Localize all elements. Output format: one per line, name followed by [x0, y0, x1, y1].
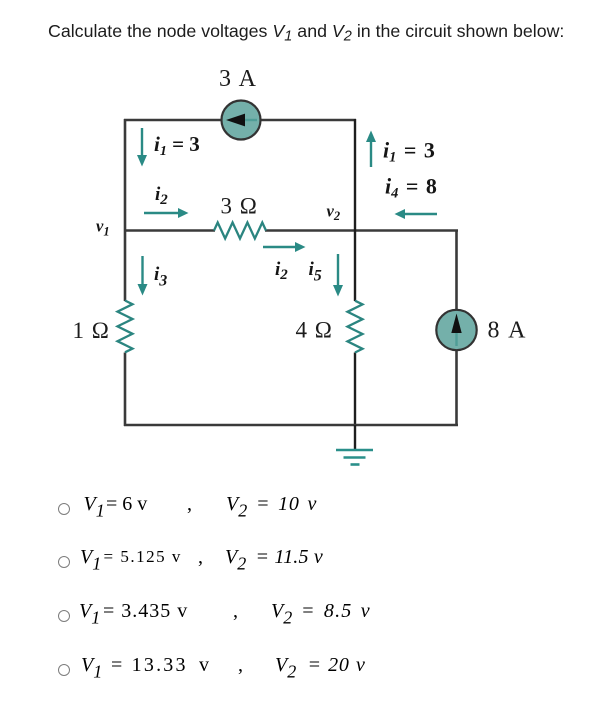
- label node v1: [96, 217, 110, 239]
- label i2 middle: [275, 259, 288, 283]
- label 1ohm value: [73, 318, 109, 343]
- label 3A value: [219, 66, 257, 92]
- label i1=3 left: [154, 132, 200, 159]
- svg-text:i1 = 3: i1 = 3: [154, 132, 200, 159]
- arrow i5 (down): [333, 254, 343, 297]
- wire middle vertical lower: [354, 353, 356, 427]
- label 8A value: [488, 318, 527, 344]
- svg-text:8 A: 8 A: [488, 318, 527, 344]
- svg-text:i4 = 8: i4 = 8: [385, 174, 437, 202]
- wire right rail: [455, 230, 458, 427]
- resistor 4ohm: [348, 301, 363, 353]
- label i5: [309, 259, 322, 285]
- arrow i2 middle (right): [263, 242, 306, 252]
- svg-text:4 Ω: 4 Ω: [296, 318, 332, 343]
- arrow i1 left (down): [137, 128, 147, 167]
- arrow i3 (down): [138, 256, 148, 296]
- svg-text:3 A: 3 A: [219, 66, 257, 92]
- wire top rail: [124, 119, 356, 122]
- label i1=3 right: [383, 138, 435, 166]
- arrow i1 right (up): [366, 131, 376, 168]
- svg-text:v2: v2: [327, 202, 341, 224]
- label i2 top-left: [155, 184, 168, 208]
- wire middle horizontal rail right: [265, 229, 458, 232]
- resistor 3ohm: [214, 223, 266, 239]
- wire ground stub: [354, 425, 356, 449]
- label i3: [154, 264, 167, 290]
- wire middle vertical upper: [354, 119, 356, 301]
- svg-text:i1 = 3: i1 = 3: [383, 138, 435, 166]
- resistor 1ohm: [118, 301, 133, 353]
- label 3ohm value: [221, 194, 257, 219]
- label node v2: [327, 202, 341, 224]
- label i4=8: [385, 174, 437, 202]
- svg-text:i2: i2: [275, 259, 288, 283]
- wire left rail upper: [124, 119, 127, 301]
- ground: [336, 450, 373, 465]
- svg-text:1 Ω: 1 Ω: [73, 318, 109, 343]
- label 4ohm value: [296, 318, 332, 343]
- svg-text:v1: v1: [96, 217, 110, 239]
- svg-text:i2: i2: [155, 184, 168, 208]
- arrow i2 top-left (right): [144, 208, 189, 218]
- svg-text:i5: i5: [309, 259, 322, 285]
- svg-text:3 Ω: 3 Ω: [221, 194, 257, 219]
- wire bottom rail: [124, 424, 458, 427]
- current source 8A: [436, 310, 476, 350]
- arrow i4 (left): [395, 209, 438, 219]
- svg-text:i3: i3: [154, 264, 167, 290]
- current source 3A: [222, 101, 261, 140]
- wire middle horizontal rail left: [124, 229, 215, 232]
- wire left rail lower: [124, 353, 127, 427]
